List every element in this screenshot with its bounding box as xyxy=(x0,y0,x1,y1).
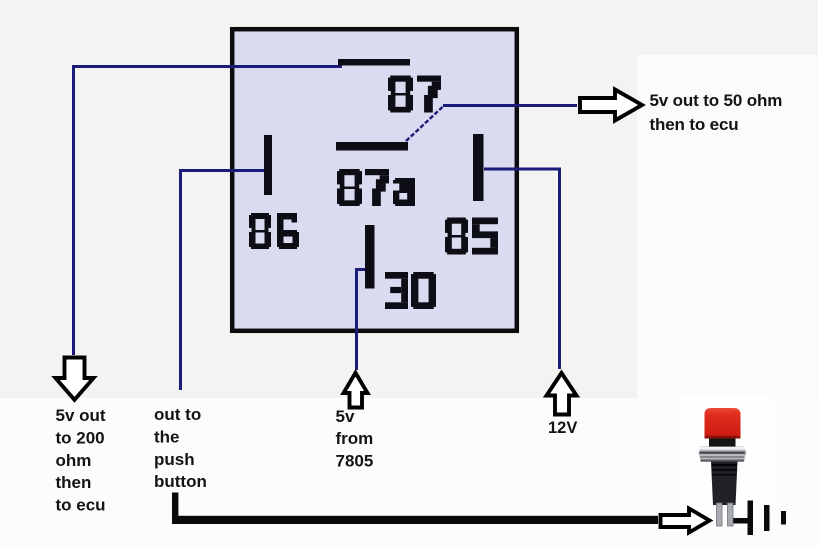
svg-text:ohm: ohm xyxy=(56,451,92,470)
svg-text:the: the xyxy=(154,427,180,446)
svg-text:to 200: to 200 xyxy=(56,428,105,447)
svg-text:5v out: 5v out xyxy=(56,406,106,425)
svg-text:then to ecu: then to ecu xyxy=(650,115,739,134)
svg-text:5v out to 50 ohm: 5v out to 50 ohm xyxy=(650,91,783,110)
svg-text:12V: 12V xyxy=(548,419,577,437)
svg-text:from: from xyxy=(336,429,374,448)
svg-text:to ecu: to ecu xyxy=(56,496,106,515)
svg-text:7805: 7805 xyxy=(336,452,374,471)
svg-text:then: then xyxy=(56,473,92,492)
svg-text:button: button xyxy=(154,472,207,491)
svg-text:out to: out to xyxy=(154,405,201,424)
svg-text:push: push xyxy=(154,450,195,469)
svg-text:5v: 5v xyxy=(336,407,355,426)
